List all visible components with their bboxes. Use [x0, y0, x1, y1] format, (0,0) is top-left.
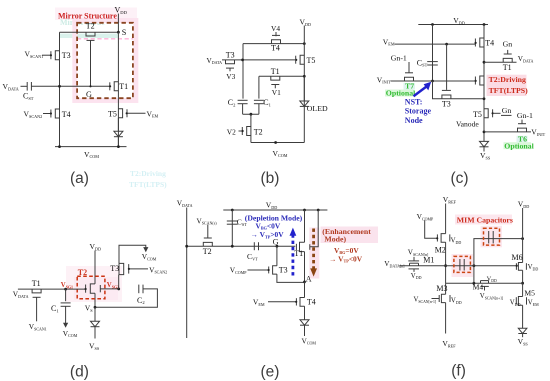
svg-text:V1: V1 [272, 88, 281, 97]
svg-text:T2:Driving: T2:Driving [489, 75, 526, 84]
svg-text:(a): (a) [70, 170, 89, 187]
svg-text:MIM Capacitors: MIM Capacitors [457, 215, 513, 224]
svg-text:T5: T5 [108, 109, 117, 118]
svg-text:Gn: Gn [502, 106, 512, 115]
svg-text:TFT(LTPS): TFT(LTPS) [489, 86, 529, 95]
svg-text:T2: T2 [203, 247, 212, 256]
svg-text:T4: T4 [485, 39, 494, 48]
svg-text:T5: T5 [473, 110, 482, 119]
svg-text:M5: M5 [524, 288, 535, 297]
svg-text:A: A [306, 274, 312, 283]
svg-text:(e): (e) [261, 364, 280, 381]
svg-text:OLED: OLED [307, 104, 328, 113]
svg-text:V3: V3 [226, 72, 235, 81]
svg-text:T3: T3 [226, 51, 235, 60]
svg-text:(c): (c) [450, 170, 468, 187]
svg-text:T1: T1 [119, 82, 128, 91]
svg-text:T1: T1 [32, 279, 41, 288]
svg-text:V4: V4 [271, 24, 280, 33]
svg-text:NST:: NST: [405, 97, 423, 106]
svg-text:TFT(LTPS): TFT(LTPS) [129, 180, 167, 189]
svg-text:Gn: Gn [503, 39, 513, 48]
svg-text:(b): (b) [261, 170, 280, 187]
svg-text:Mode): Mode) [324, 234, 346, 243]
svg-text:Vanode: Vanode [456, 120, 479, 129]
svg-text:Storage: Storage [405, 107, 432, 116]
svg-text:Optional: Optional [504, 141, 534, 150]
svg-text:G: G [86, 90, 92, 99]
svg-text:T4: T4 [62, 110, 71, 119]
svg-text:T1: T1 [271, 67, 280, 76]
svg-text:M2: M2 [435, 245, 446, 254]
svg-text:T4: T4 [307, 297, 316, 306]
svg-text:T4: T4 [271, 44, 280, 53]
svg-text:T2:Driving: T2:Driving [130, 169, 166, 178]
svg-text:T2: T2 [254, 127, 263, 136]
svg-text:T3: T3 [62, 51, 71, 60]
svg-text:Mirror Structure: Mirror Structure [58, 12, 117, 21]
svg-text:S: S [122, 28, 127, 37]
svg-text:M1: M1 [423, 256, 434, 265]
svg-text:T2: T2 [78, 268, 87, 277]
svg-text:(f): (f) [451, 363, 466, 380]
svg-text:Node: Node [405, 116, 423, 125]
svg-text:M3: M3 [436, 284, 447, 293]
svg-text:T2: T2 [86, 22, 95, 31]
svg-text:Gn-1: Gn-1 [391, 53, 407, 62]
svg-text:T5: T5 [307, 56, 316, 65]
svg-text:Optional: Optional [386, 88, 416, 97]
svg-text:Gn-1: Gn-1 [517, 111, 533, 120]
svg-text:(d): (d) [70, 364, 89, 381]
svg-text:V2: V2 [227, 127, 236, 136]
svg-text:T1: T1 [503, 63, 512, 72]
svg-text:T3: T3 [110, 264, 119, 273]
svg-text:M4: M4 [473, 283, 484, 292]
svg-text:M6: M6 [512, 253, 523, 262]
svg-text:T1: T1 [294, 249, 303, 258]
svg-text:T3: T3 [279, 265, 288, 274]
svg-text:T3: T3 [442, 99, 451, 108]
